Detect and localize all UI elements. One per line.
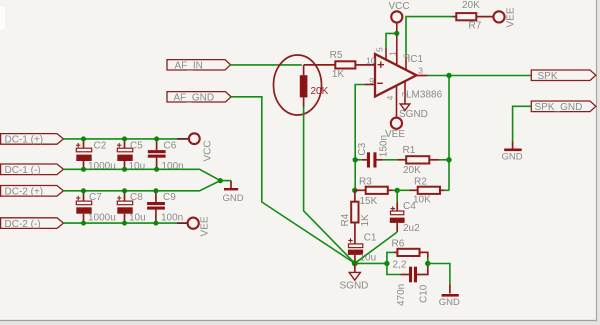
- svg-text:DC-2 (+): DC-2 (+): [5, 187, 44, 198]
- svg-text:R4: R4: [340, 213, 351, 226]
- svg-text:1K: 1K: [332, 69, 345, 80]
- junction C3 left: [353, 157, 358, 162]
- pin 1 wire from VCC: [387, 23, 397, 66]
- flag AF_GND: [167, 92, 231, 104]
- svg-text:470n: 470n: [396, 284, 407, 306]
- svg-text:1K: 1K: [360, 214, 371, 227]
- svg-text:VCC: VCC: [389, 1, 410, 12]
- junction zobel left: [384, 261, 389, 266]
- svg-text:C4: C4: [403, 201, 416, 212]
- ground GND (bottom right): [439, 285, 460, 309]
- svg-text:6: 6: [401, 53, 411, 58]
- junction R3 left: [352, 188, 357, 193]
- svg-text:AF_GND: AF_GND: [174, 93, 215, 104]
- resistor R4: [340, 190, 371, 243]
- svg-text:2u2: 2u2: [403, 223, 420, 234]
- wire net DC-1- (row1 bottom): [63, 169, 220, 180]
- capacitor C6: [148, 139, 184, 172]
- wire output down to feedback: [448, 76, 450, 191]
- supply pin VEE (top right): [493, 7, 516, 27]
- flag AF_IN: [167, 60, 231, 72]
- wire AF_IN to pot: [231, 64, 302, 66]
- svg-text:C10: C10: [418, 284, 429, 303]
- flag SPK_GND: [531, 101, 596, 113]
- svg-text:LM3886: LM3886: [406, 90, 443, 101]
- junction on VCC pin1 net: [394, 31, 399, 36]
- svg-text:DC-1 (+): DC-1 (+): [5, 135, 44, 146]
- svg-text:C9: C9: [163, 192, 176, 203]
- capacitor C5: [117, 139, 145, 172]
- svg-text:5: 5: [375, 47, 385, 52]
- pin 7 wire to SGND: [400, 81, 410, 104]
- ground SGND (op-amp): [399, 104, 428, 120]
- svg-text:VEE: VEE: [506, 7, 517, 27]
- flag DC-1 (+): [1, 134, 64, 146]
- pin 5 wire to VCC net: [375, 33, 397, 59]
- wire pot bottom to star point: [304, 107, 355, 264]
- wire pin 9 to feedback node: [355, 85, 375, 160]
- svg-text:C8: C8: [130, 192, 143, 203]
- svg-text:GND: GND: [502, 151, 523, 162]
- junction R1 right: [446, 157, 451, 162]
- junction output node: [446, 73, 451, 78]
- capacitor C9: [147, 191, 183, 224]
- flag SPK: [531, 70, 596, 82]
- capacitor C2: [76, 139, 116, 172]
- svg-text:15K: 15K: [360, 196, 378, 207]
- ground SGND (star point): [340, 263, 369, 291]
- wire star point to zobel: [355, 262, 387, 264]
- svg-text:20K: 20K: [311, 86, 329, 97]
- svg-text:AF_IN: AF_IN: [175, 61, 203, 72]
- wire to GND (left): [220, 180, 231, 182]
- svg-text:DC-2 (-): DC-2 (-): [5, 219, 41, 230]
- wire net DC-2+ (row2 top): [63, 181, 220, 191]
- svg-text:R7: R7: [469, 21, 482, 32]
- resistor R2: [397, 177, 445, 206]
- svg-text:VEE: VEE: [200, 216, 211, 236]
- wire R3 to middle node: [393, 189, 398, 191]
- svg-text:SPK: SPK: [538, 71, 558, 82]
- svg-text:C7: C7: [89, 192, 102, 203]
- svg-text:R1: R1: [403, 145, 416, 156]
- bottom border: [0, 321, 600, 325]
- wire AF_GND down to star point: [231, 97, 355, 263]
- pin stub to VCC supply row1: [177, 138, 189, 140]
- op-amp U1 triangle: [375, 54, 417, 97]
- resistor R6: [387, 239, 428, 271]
- svg-text:GND: GND: [439, 297, 460, 308]
- svg-text:SGND: SGND: [340, 281, 369, 292]
- wire R1 to output vertical: [439, 159, 449, 161]
- wire C3-node down to R3-node: [354, 160, 356, 191]
- wire SPK_GND to ground: [513, 106, 532, 141]
- svg-text:1000u: 1000u: [88, 212, 116, 223]
- flag DC-1 (-): [1, 164, 64, 176]
- wire C3 to R1: [383, 159, 398, 161]
- svg-text:1000u: 1000u: [88, 161, 116, 172]
- pin 6 wire to mute resistor: [401, 17, 452, 70]
- wire zobel to ground: [428, 264, 450, 285]
- supply pin VEE (below op-amp): [385, 118, 405, 141]
- svg-text:SPK_GND: SPK_GND: [535, 102, 583, 113]
- svg-text:R6: R6: [392, 239, 405, 250]
- pin 3 output stub: [417, 75, 428, 77]
- wire pot to R5: [304, 64, 336, 66]
- wire net DC-2- (row2 bottom): [63, 222, 177, 224]
- svg-text:SGND: SGND: [399, 109, 428, 120]
- capacitor C7: [76, 191, 116, 224]
- junction zobel right: [425, 261, 430, 266]
- capacitor C4: [390, 190, 420, 234]
- svg-text:2,2: 2,2: [393, 259, 407, 270]
- pin stub to VEE supply row2: [177, 222, 188, 224]
- ground GND (left): [223, 181, 244, 204]
- flag DC-2 (+): [1, 186, 64, 198]
- supply pin VCC (row1): [189, 133, 214, 161]
- wire R2 to output vertical: [445, 189, 449, 191]
- wire R5 to pin10: [355, 64, 375, 66]
- ground GND (under SPK_GND): [502, 142, 523, 163]
- svg-text:C3: C3: [357, 142, 368, 155]
- svg-text:10u: 10u: [129, 212, 146, 223]
- junction middle node: [395, 188, 400, 193]
- supply pin VCC (top): [389, 1, 410, 23]
- svg-text:R2: R2: [414, 177, 427, 188]
- svg-text:R5: R5: [330, 50, 343, 61]
- wire net DC-1+ (row1 top): [63, 138, 177, 140]
- svg-text:100n: 100n: [161, 212, 183, 223]
- resistor R5: [330, 50, 356, 80]
- junction star point: [352, 260, 358, 266]
- svg-text:100n: 100n: [162, 161, 184, 172]
- wire C4 to star point: [355, 232, 397, 263]
- svg-text:20K: 20K: [403, 165, 421, 176]
- svg-text:VCC: VCC: [203, 140, 214, 161]
- right border: [597, 0, 600, 321]
- svg-text:10u: 10u: [129, 161, 146, 172]
- svg-text:C5: C5: [130, 141, 143, 152]
- junction dots rows: [81, 136, 86, 141]
- resistor R1: [397, 145, 439, 176]
- svg-text:1: 1: [387, 51, 397, 56]
- svg-text:C1: C1: [364, 233, 377, 244]
- junction GND-left: [218, 178, 223, 183]
- wire output to SPK: [428, 75, 532, 77]
- capacitor C10: [387, 264, 429, 307]
- pin 4 wire to VEE: [385, 86, 396, 118]
- svg-text:20K: 20K: [462, 0, 480, 11]
- resistor R3: [355, 177, 393, 208]
- capacitor C3: [355, 135, 389, 168]
- resistor R7: [453, 0, 494, 31]
- svg-text:7: 7: [400, 92, 410, 97]
- svg-text:4: 4: [385, 95, 395, 100]
- svg-text:150n: 150n: [379, 135, 390, 157]
- svg-text:10: 10: [366, 55, 376, 65]
- svg-text:C2: C2: [94, 141, 107, 152]
- capacitor C8: [117, 191, 146, 224]
- capacitor C1: [348, 233, 377, 264]
- svg-text:DC-1 (-): DC-1 (-): [5, 165, 41, 176]
- potentiometer 20K: [274, 55, 329, 115]
- supply pin VEE (row2): [188, 216, 211, 236]
- svg-text:C6: C6: [164, 141, 177, 152]
- flag DC-2 (-): [1, 218, 64, 230]
- svg-text:R3: R3: [359, 177, 372, 188]
- svg-text:GND: GND: [223, 193, 244, 204]
- svg-text:3: 3: [418, 65, 423, 75]
